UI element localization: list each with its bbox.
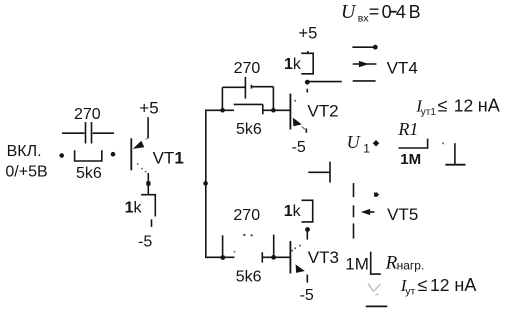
svg-text:VT5: VT5 — [387, 205, 418, 224]
capacitor C2 plate 1 — [244, 77, 246, 99]
svg-text:нагр.: нагр. — [397, 259, 425, 273]
capacitor output plate (wire with bar) — [308, 171, 330, 173]
resistor Rload bracket — [371, 252, 381, 274]
svg-text:нА: нА — [478, 96, 500, 116]
transistor VT3 emitter lead — [306, 275, 308, 283]
wire top RC left segment — [205, 109, 234, 111]
svg-text:12: 12 — [430, 275, 449, 295]
transistor VT3 collector specks — [291, 245, 301, 252]
wire bottom RC right segment — [262, 256, 290, 258]
wire middle rail vertical with bottom corner — [206, 110, 235, 258]
text Iut <= 12 nA — [400, 275, 477, 298]
transistor VT1 collector faint speck — [145, 138, 147, 140]
svg-text:5k6: 5k6 — [236, 121, 262, 138]
transistor VT2 emitter lead — [305, 128, 307, 132]
wire +5 lead remnant — [307, 51, 309, 53]
node F (top RC right dot) — [271, 108, 276, 113]
svg-text:-5: -5 — [300, 287, 314, 304]
svg-text:0/+5В: 0/+5В — [5, 164, 47, 181]
dash in 0-4 — [390, 11, 397, 13]
svg-text:U: U — [341, 1, 357, 23]
ground symbol — [454, 143, 456, 165]
capacitor C1 270 left lead — [62, 132, 85, 134]
svg-text:≤: ≤ — [438, 96, 448, 116]
transistor VT2 collector dash — [306, 89, 308, 93]
transistor VT4 gate line with arrow — [353, 63, 377, 65]
svg-text:VT4: VT4 — [387, 58, 418, 77]
resistor 1k (VT1) open-left box — [141, 195, 155, 217]
wire bracket right vertical (C2) — [272, 87, 274, 111]
transistor VT5 gate line segments — [353, 183, 355, 197]
transistor VT2 collector speck — [294, 100, 296, 102]
text Iut1 <= 12 nA — [415, 96, 499, 119]
svg-text:VT1: VT1 — [153, 149, 184, 168]
resistor 5k6 top (line with end tick) — [234, 103, 263, 105]
resistor 5k6 bottom tick — [261, 252, 263, 262]
node E (top RC left dot) — [220, 108, 225, 113]
text Uvx = 0-4 V — [341, 1, 421, 24]
svg-text:-5: -5 — [292, 139, 306, 156]
capacitor C2 270 left lead — [222, 86, 245, 88]
node U1 label — [347, 132, 371, 156]
svg-text:12: 12 — [454, 96, 473, 116]
wire top RC right segment — [263, 109, 291, 111]
resistor 5k6 left (open-top box) — [75, 150, 102, 161]
svg-text:270: 270 — [74, 106, 101, 123]
transistor faded marks (Rload) — [368, 284, 381, 295]
svg-text:1k: 1k — [284, 203, 302, 220]
svg-text:270: 270 — [234, 60, 261, 77]
transistor VT2 base bar — [289, 94, 291, 130]
svg-text:=: = — [369, 2, 380, 22]
transistor VT4 drain line — [352, 46, 373, 48]
node A (input junction dot) — [59, 153, 64, 158]
node G (VT2 collector dot) — [305, 80, 310, 85]
capacitor C3 plate remnants — [243, 234, 253, 237]
capacitor C1 270 right lead — [93, 132, 114, 134]
node H (bottom RC left dot) — [220, 255, 225, 260]
svg-text:5k6: 5k6 — [236, 268, 262, 285]
svg-text:ВКЛ.: ВКЛ. — [7, 143, 42, 160]
svg-text:вх: вх — [358, 12, 370, 24]
svg-text:В: В — [409, 2, 421, 22]
svg-text:ут: ут — [405, 286, 415, 298]
node B (junction dot right of 5k6) — [111, 152, 116, 157]
svg-text:1: 1 — [363, 142, 370, 156]
transistor VT1 base bar — [130, 138, 132, 170]
svg-text:4: 4 — [396, 2, 406, 22]
svg-text:1M: 1M — [400, 151, 421, 168]
svg-text:+5: +5 — [139, 98, 158, 117]
svg-text:нА: нА — [454, 275, 476, 295]
transistor VT3 collector lead — [306, 232, 308, 240]
wire +5 lead to VT1 — [147, 117, 149, 138]
node L (U1 dot) — [373, 140, 380, 147]
wire bracket left vertical (C2) — [221, 87, 223, 110]
transistor VT2 emitter diagonal tick — [302, 127, 305, 130]
resistor 1k top (open-left box) — [301, 53, 313, 74]
node D (dot on rail) — [203, 181, 208, 186]
node ВКЛ input label — [5, 143, 47, 181]
svg-text:≤: ≤ — [418, 275, 428, 295]
node I (bottom RC right dot) — [271, 255, 276, 260]
ground line bottom — [366, 305, 388, 307]
transistor VT4 source line — [353, 80, 376, 82]
svg-text:R1: R1 — [397, 119, 418, 139]
transistor VT2 emitter arrow — [293, 118, 302, 127]
node J (VT3 collector dot) — [305, 227, 310, 232]
svg-text:+5: +5 — [299, 24, 318, 42]
node C (VT1 emitter junction dot) — [146, 181, 150, 185]
svg-text:VT2: VT2 — [307, 101, 338, 120]
svg-text:1k: 1k — [125, 200, 143, 217]
svg-text:VT3: VT3 — [308, 248, 339, 267]
capacitor C1 270 plates — [85, 122, 87, 144]
wire VT1 emitter lead — [147, 173, 149, 195]
capacitor C2 right lead — [251, 86, 273, 88]
wire lead to -5 (VT1) — [151, 219, 153, 227]
svg-text:U: U — [347, 132, 361, 152]
node M (VT5 drain mark) — [374, 193, 379, 197]
node K (VT4 drain dot) — [373, 45, 378, 50]
transistor VT3 emitter arrow — [296, 264, 305, 273]
transistor VT1 emitter faint specks — [137, 163, 147, 173]
wire faint speck (bottom RC) — [234, 251, 236, 253]
wire bracket right vertical (C3) — [273, 235, 275, 258]
svg-text:5k6: 5k6 — [76, 165, 102, 182]
transistor VT5 gate arrow — [361, 209, 370, 215]
svg-text:270: 270 — [233, 207, 260, 224]
svg-text:1k: 1k — [284, 56, 302, 73]
wire bracket left vertical (C3) — [222, 235, 224, 257]
transistor VT3 base bar — [289, 241, 291, 273]
transistor VT1 emitter arrow (points to bar) — [133, 141, 145, 149]
svg-text:1M: 1M — [345, 255, 369, 274]
node faint dot — [442, 142, 444, 144]
wire VT2 collector to VT4 — [309, 81, 342, 83]
resistor R1 underline with tick — [399, 139, 428, 148]
svg-text:-5: -5 — [138, 233, 152, 250]
svg-text:ут1: ут1 — [421, 107, 437, 118]
resistor 1k bottom (open-left box) — [302, 200, 313, 222]
capacitor C2 plate 2 remnant — [250, 85, 252, 89]
resistor Rload label — [385, 252, 425, 273]
